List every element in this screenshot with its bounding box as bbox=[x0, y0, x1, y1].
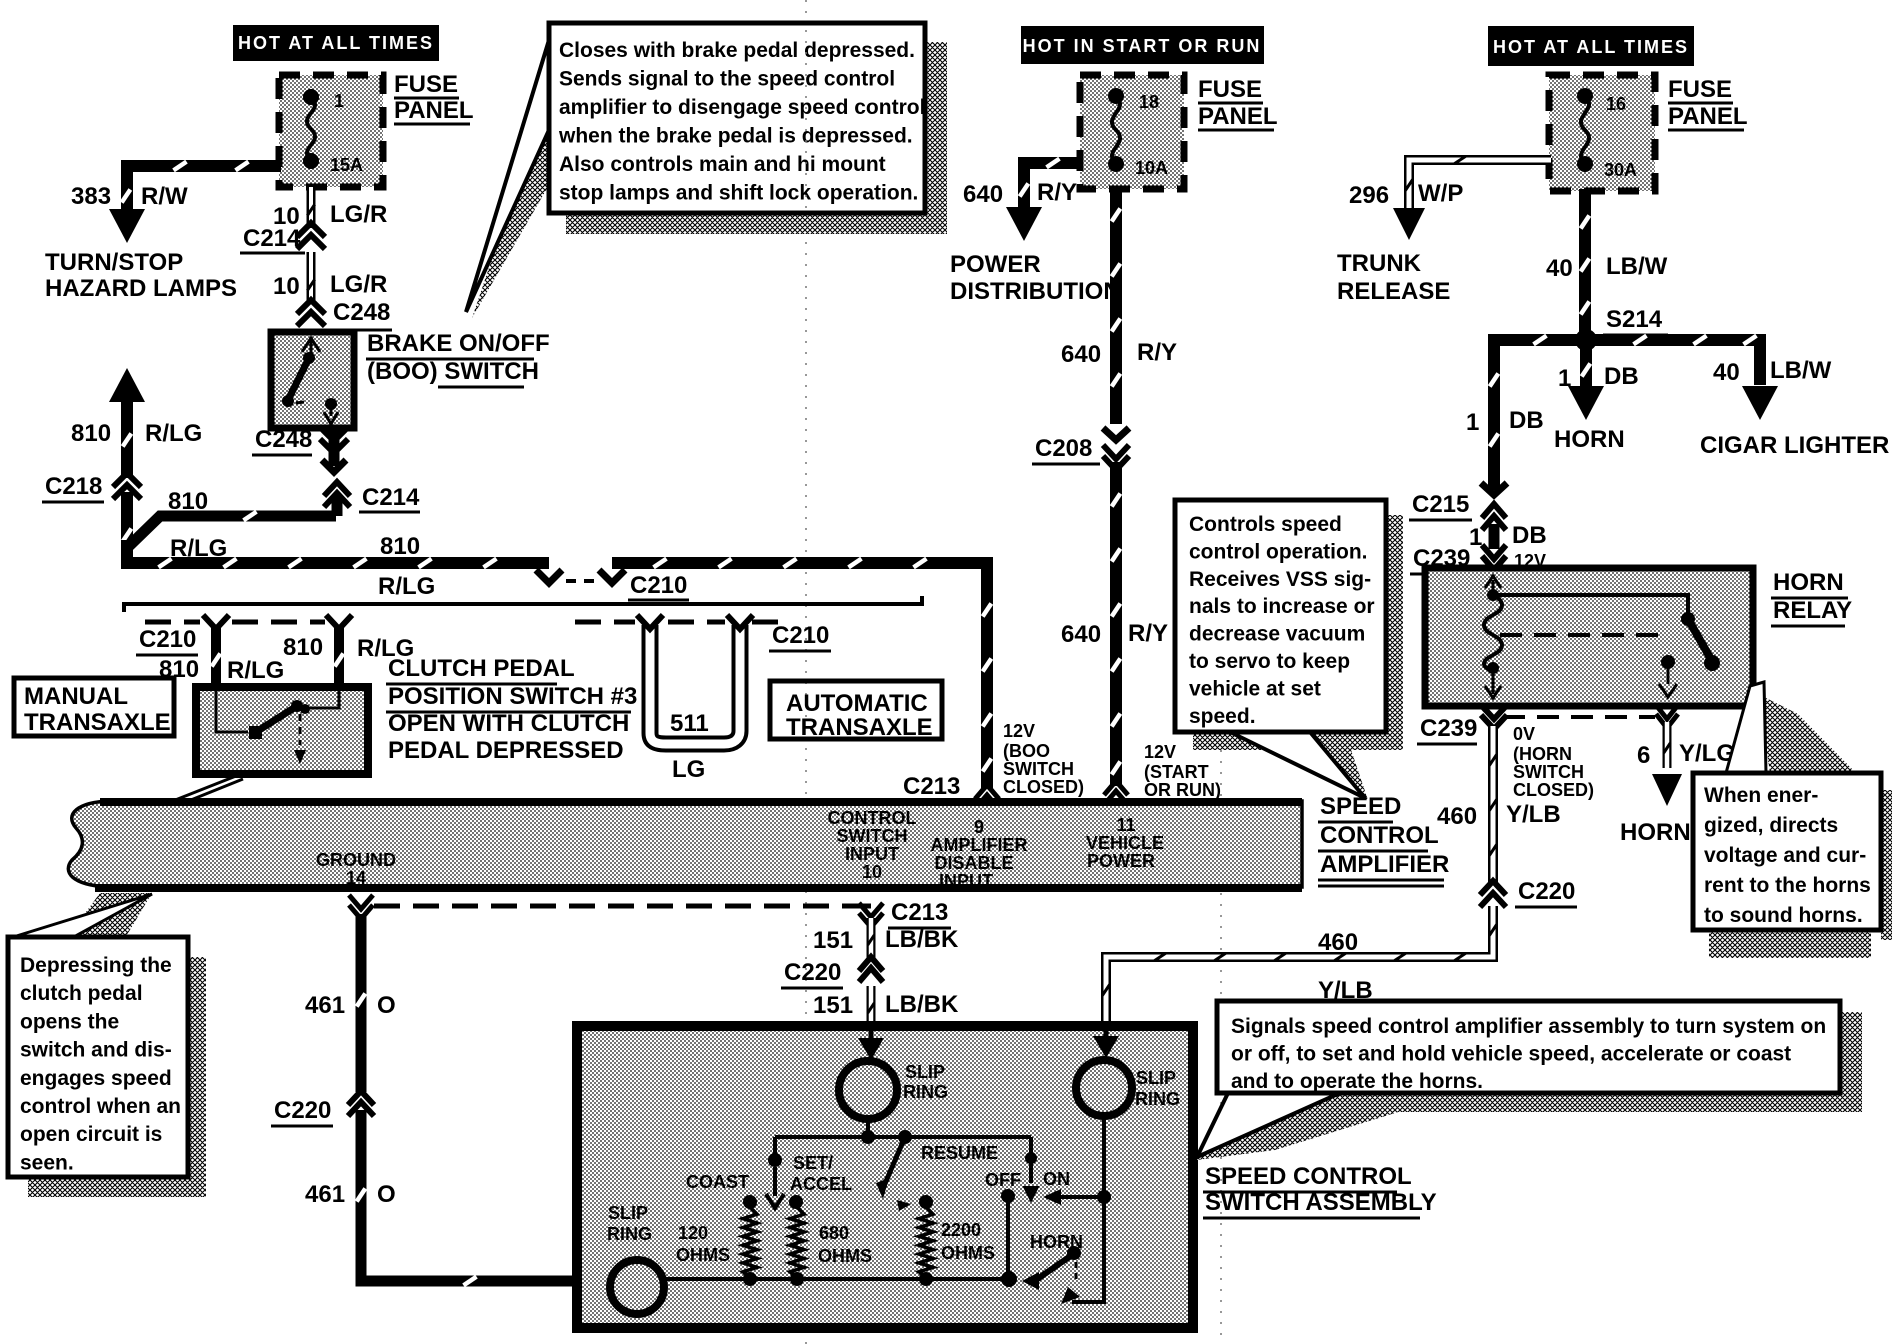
speed control switch assembly box bbox=[577, 1026, 1193, 1328]
svg-text:C248: C248 bbox=[255, 426, 312, 453]
wire 40 LB/W from fuse to S214 bbox=[1579, 189, 1591, 340]
svg-text:HORN: HORN bbox=[1554, 426, 1625, 453]
svg-text:switch and dis-: switch and dis- bbox=[20, 1039, 172, 1062]
svg-text:LB/BK: LB/BK bbox=[885, 926, 959, 953]
svg-text:C239: C239 bbox=[1420, 715, 1477, 742]
off wiper from bus bbox=[1029, 1137, 1033, 1183]
svg-text:C220: C220 bbox=[274, 1097, 331, 1124]
resume wiper bbox=[884, 1137, 905, 1186]
svg-text:Sends signal to the speed cont: Sends signal to the speed control bbox=[559, 68, 895, 91]
svg-text:10A: 10A bbox=[1135, 158, 1168, 178]
svg-text:461: 461 bbox=[305, 992, 345, 1019]
svg-text:RING: RING bbox=[607, 1224, 652, 1244]
wire C215 to C239 bbox=[1489, 524, 1500, 549]
svg-text:C214: C214 bbox=[362, 484, 420, 511]
svg-text:O: O bbox=[377, 992, 396, 1019]
slip ring 2 drop wire bbox=[1102, 1116, 1106, 1302]
svg-text:9: 9 bbox=[974, 817, 984, 837]
set/accel contact bbox=[789, 1195, 803, 1209]
svg-text:control operation.: control operation. bbox=[1189, 540, 1368, 563]
svg-text:R/W: R/W bbox=[141, 183, 188, 210]
svg-text:640: 640 bbox=[963, 181, 1003, 208]
svg-text:HOT IN START OR RUN: HOT IN START OR RUN bbox=[1023, 36, 1262, 56]
svg-text:810: 810 bbox=[71, 420, 111, 447]
svg-text:VEHICLE: VEHICLE bbox=[1086, 833, 1164, 853]
svg-text:C220: C220 bbox=[1518, 878, 1575, 905]
svg-text:383: 383 bbox=[71, 183, 111, 210]
svg-text:SWITCH ASSEMBLY: SWITCH ASSEMBLY bbox=[1205, 1189, 1437, 1216]
svg-text:AUTOMATIC: AUTOMATIC bbox=[786, 690, 928, 717]
connector below band (ground pin) bbox=[349, 895, 373, 909]
relay coil bottom arrow bbox=[1492, 668, 1495, 694]
svg-text:AMPLIFIER: AMPLIFIER bbox=[931, 835, 1028, 855]
connector C220 (relay wire) bbox=[1480, 881, 1506, 895]
callout pointer (controls speed) bbox=[1230, 732, 1365, 798]
svg-text:control when an: control when an bbox=[20, 1095, 181, 1118]
svg-text:INPUT: INPUT bbox=[845, 844, 899, 864]
callout pointer wedge shadow bbox=[472, 90, 549, 318]
svg-text:810: 810 bbox=[283, 634, 323, 661]
svg-text:CONTROL: CONTROL bbox=[1320, 822, 1439, 849]
svg-text:12V: 12V bbox=[1003, 721, 1035, 741]
svg-text:151: 151 bbox=[813, 992, 853, 1019]
svg-text:RELAY: RELAY bbox=[1773, 597, 1852, 624]
svg-text:nals to increase or: nals to increase or bbox=[1189, 595, 1375, 618]
relay 12V entry arrow bbox=[1492, 580, 1495, 594]
wire 460 Y/LB from relay down (hollow) bbox=[1488, 726, 1498, 884]
manual transaxle box bbox=[14, 678, 174, 736]
svg-text:R/Y: R/Y bbox=[1128, 620, 1168, 647]
coast contact bbox=[743, 1195, 757, 1209]
clutch switch internals bbox=[216, 690, 248, 732]
svg-text:810: 810 bbox=[380, 533, 420, 560]
wire 640 R/Y to power distribution bbox=[1024, 157, 1082, 169]
svg-text:C210: C210 bbox=[139, 626, 196, 653]
svg-text:ACCEL: ACCEL bbox=[790, 1174, 852, 1194]
connector C239 top bbox=[1482, 545, 1506, 559]
svg-text:FUSE: FUSE bbox=[394, 71, 458, 98]
svg-text:R/LG: R/LG bbox=[145, 420, 202, 447]
wire 10 LG/R upper (hollow) bbox=[307, 187, 316, 228]
svg-text:C210: C210 bbox=[630, 572, 687, 599]
svg-text:C213: C213 bbox=[903, 773, 960, 800]
callout pointer (closes with brake) bbox=[466, 40, 549, 312]
wire 461 O lower bbox=[361, 1110, 577, 1281]
svg-text:TRANSAXLE: TRANSAXLE bbox=[786, 714, 933, 741]
svg-text:amplifier to disengage speed c: amplifier to disengage speed control bbox=[559, 96, 925, 119]
svg-text:PANEL: PANEL bbox=[1668, 103, 1748, 130]
callout box: signals speed control amplifier bbox=[1217, 1001, 1840, 1093]
svg-text:LG/R: LG/R bbox=[330, 271, 387, 298]
svg-text:DB: DB bbox=[1509, 407, 1544, 434]
svg-text:rent to the horns: rent to the horns bbox=[1704, 874, 1871, 897]
svg-text:vehicle at set: vehicle at set bbox=[1189, 677, 1321, 700]
svg-text:C213: C213 bbox=[891, 899, 948, 926]
callout box: when energized directs voltage bbox=[1693, 773, 1881, 930]
clutch pedal position switch box bbox=[196, 687, 368, 774]
svg-text:Also controls main and hi moun: Also controls main and hi mount bbox=[559, 153, 886, 176]
C210 dashed connector line (left) bbox=[145, 620, 200, 625]
svg-text:40: 40 bbox=[1713, 359, 1740, 386]
svg-text:SET/: SET/ bbox=[793, 1153, 833, 1173]
switch assembly entry arrow (151) bbox=[869, 1030, 874, 1042]
svg-text:OPEN WITH CLUTCH: OPEN WITH CLUTCH bbox=[388, 710, 629, 737]
wire 460 Y/LB elbow (hollow) bbox=[1106, 906, 1493, 1026]
svg-text:COAST: COAST bbox=[686, 1172, 749, 1192]
svg-text:LB/BK: LB/BK bbox=[885, 991, 959, 1018]
connector into band (vehicle power) bbox=[1104, 781, 1128, 795]
connector C220 (461) bbox=[348, 1091, 374, 1105]
svg-text:CLOSED): CLOSED) bbox=[1003, 777, 1084, 797]
fuse F2 10A bbox=[1112, 96, 1120, 164]
svg-text:120: 120 bbox=[678, 1223, 708, 1243]
connector C214 top bbox=[297, 223, 325, 237]
connector C248 bottom bbox=[320, 427, 348, 441]
callout shadow (when energized) bbox=[1881, 790, 1892, 940]
svg-text:C220: C220 bbox=[784, 959, 841, 986]
svg-text:to servo to keep: to servo to keep bbox=[1189, 650, 1350, 673]
svg-text:R/LG: R/LG bbox=[378, 573, 435, 600]
svg-text:W/P: W/P bbox=[1418, 180, 1463, 207]
svg-text:C208: C208 bbox=[1035, 435, 1092, 462]
svg-text:SPEED CONTROL: SPEED CONTROL bbox=[1205, 1163, 1412, 1190]
on wiper arm bbox=[1097, 1190, 1111, 1204]
brake on/off switch box bbox=[271, 332, 354, 428]
svg-text:SWITCH: SWITCH bbox=[1513, 762, 1584, 782]
svg-text:LB/W: LB/W bbox=[1770, 357, 1832, 384]
wire S214 right branch to cigar lighter bbox=[1586, 340, 1760, 385]
svg-text:Signals speed control amplifie: Signals speed control amplifier assembly… bbox=[1231, 1015, 1826, 1038]
svg-text:AMPLIFIER: AMPLIFIER bbox=[1320, 851, 1449, 878]
svg-text:speed.: speed. bbox=[1189, 705, 1256, 728]
slip ring 3 (bottom left) bbox=[610, 1260, 664, 1314]
svg-text:decrease vacuum: decrease vacuum bbox=[1189, 623, 1365, 646]
connector C220 (151 wire) bbox=[859, 957, 883, 971]
svg-text:151: 151 bbox=[813, 927, 853, 954]
connector C210 on loop bbox=[637, 615, 663, 629]
svg-text:RING: RING bbox=[1135, 1089, 1180, 1109]
connector C215 bbox=[1482, 504, 1506, 518]
switch assembly entry arrow (460) bbox=[1104, 1030, 1109, 1040]
fuse F1 15A bbox=[307, 97, 315, 161]
wire 810 R/LG long run (left part) bbox=[127, 540, 549, 563]
fuse panel 1 box bbox=[279, 75, 383, 187]
wire 296 W/P (hollow) bbox=[1409, 160, 1551, 208]
svg-text:TURN/STOP: TURN/STOP bbox=[45, 249, 183, 276]
C210 dashed line (loop) bbox=[575, 620, 635, 625]
relay wire coil-top to contact bbox=[1493, 595, 1688, 614]
svg-text:C218: C218 bbox=[45, 473, 102, 500]
diagonal pointer clutch box to ground band bbox=[155, 776, 236, 808]
slip ring 1 (center top) bbox=[839, 1061, 897, 1119]
svg-text:OHMS: OHMS bbox=[941, 1243, 995, 1263]
svg-text:when the brake pedal is depres: when the brake pedal is depressed. bbox=[558, 125, 913, 148]
fold line artifact bbox=[805, 0, 807, 1344]
connector C213 (amplifier disable input) bbox=[975, 785, 999, 799]
svg-text:open circuit is: open circuit is bbox=[20, 1123, 162, 1146]
connector C210 on long wire (break) bbox=[536, 570, 562, 583]
svg-text:SWITCH: SWITCH bbox=[1003, 759, 1074, 779]
svg-text:HORN: HORN bbox=[1773, 569, 1844, 596]
svg-text:OR RUN): OR RUN) bbox=[1144, 780, 1221, 800]
svg-text:MANUAL: MANUAL bbox=[24, 683, 128, 710]
svg-text:C210: C210 bbox=[772, 622, 829, 649]
resistor 680 ohms bbox=[790, 1207, 804, 1279]
wire 461 O upper bbox=[356, 914, 367, 1092]
connector C208 bbox=[1103, 428, 1129, 440]
wire 10 LG/R lower (hollow) bbox=[307, 252, 316, 305]
wire 640 R/Y lower bbox=[1110, 462, 1122, 786]
callout pointer (when energized) bbox=[1726, 682, 1766, 773]
wire S214 left branch to C215 bbox=[1494, 340, 1586, 490]
svg-text:DISABLE: DISABLE bbox=[934, 853, 1013, 873]
dashed line ground to C213 bbox=[374, 904, 858, 909]
svg-text:DISTRIBUTION: DISTRIBUTION bbox=[950, 278, 1121, 305]
slip ring 1 stub bbox=[866, 1119, 870, 1137]
svg-text:DB: DB bbox=[1604, 363, 1639, 390]
label HOT AT ALL TIMES (right) bbox=[1488, 26, 1694, 66]
svg-text:Controls speed: Controls speed bbox=[1189, 513, 1342, 536]
svg-text:(BOO) SWITCH: (BOO) SWITCH bbox=[367, 358, 539, 385]
horn wiper arm bbox=[1001, 1271, 1017, 1287]
svg-text:RING: RING bbox=[903, 1082, 948, 1102]
wire 151 LB/BK upper (hollow) bbox=[867, 918, 876, 958]
bottom bus line bbox=[661, 1277, 1009, 1281]
top bus line bbox=[775, 1135, 1031, 1139]
wire C214 down to junction bbox=[332, 496, 343, 516]
svg-text:TRUNK: TRUNK bbox=[1337, 250, 1422, 277]
svg-text:10: 10 bbox=[862, 862, 882, 882]
svg-text:511: 511 bbox=[670, 710, 709, 737]
svg-text:S214: S214 bbox=[1606, 306, 1663, 333]
svg-text:40: 40 bbox=[1546, 255, 1573, 282]
svg-text:CLUTCH PEDAL: CLUTCH PEDAL bbox=[388, 655, 575, 682]
svg-text:seen.: seen. bbox=[20, 1151, 74, 1174]
wire S214 down branch to HORN bbox=[1580, 340, 1592, 388]
svg-text:LB/W: LB/W bbox=[1606, 253, 1668, 280]
fuse F3 30A bbox=[1581, 96, 1589, 164]
svg-text:POSITION SWITCH #3: POSITION SWITCH #3 bbox=[388, 683, 637, 710]
svg-text:PANEL: PANEL bbox=[1198, 103, 1278, 130]
callout shadow (controls speed) bbox=[1386, 515, 1403, 749]
wire BOO to C214 (solid) bbox=[329, 428, 340, 466]
horn momentary contact bbox=[1072, 1300, 1106, 1304]
fuse panel 3 box bbox=[1549, 75, 1655, 191]
splice S214 bbox=[1575, 329, 1597, 351]
svg-text:ON: ON bbox=[1043, 1169, 1070, 1189]
svg-text:18: 18 bbox=[1139, 92, 1159, 112]
callout pointer shadow (controls speed) bbox=[1258, 732, 1368, 800]
connector (relay output) bbox=[1656, 705, 1678, 719]
connector C239 bottom (coil) bbox=[1481, 705, 1507, 719]
svg-text:R/Y: R/Y bbox=[1037, 179, 1077, 206]
svg-text:SLIP: SLIP bbox=[608, 1203, 648, 1223]
fold line artifact over callout bbox=[805, 30, 807, 208]
svg-text:PEDAL DEPRESSED: PEDAL DEPRESSED bbox=[388, 737, 624, 764]
svg-text:PANEL: PANEL bbox=[394, 97, 474, 124]
svg-text:SLIP: SLIP bbox=[1136, 1068, 1176, 1088]
wire junction diagonal bbox=[127, 516, 336, 548]
svg-text:11: 11 bbox=[1116, 815, 1135, 835]
svg-text:CONTROL: CONTROL bbox=[828, 808, 917, 828]
svg-text:SWITCH: SWITCH bbox=[837, 826, 908, 846]
label HOT AT ALL TIMES (left) bbox=[233, 25, 439, 61]
callout shadow (signals) bbox=[1840, 1012, 1862, 1112]
callout shadow (closes with brake) bbox=[925, 42, 947, 234]
svg-text:RESUME: RESUME bbox=[921, 1143, 998, 1163]
svg-text:gized, directs: gized, directs bbox=[1704, 814, 1838, 837]
svg-text:HOT AT ALL TIMES: HOT AT ALL TIMES bbox=[238, 33, 434, 53]
wire C218 down to corner bbox=[121, 492, 133, 569]
svg-text:1: 1 bbox=[334, 91, 344, 111]
svg-text:OFF: OFF bbox=[985, 1170, 1021, 1190]
svg-text:460: 460 bbox=[1437, 803, 1477, 830]
svg-text:INPUT: INPUT bbox=[939, 871, 993, 891]
svg-text:GROUND: GROUND bbox=[316, 850, 396, 870]
svg-text:10: 10 bbox=[273, 203, 300, 230]
svg-text:0V: 0V bbox=[1513, 724, 1535, 744]
relay dashed jumper below box bbox=[1503, 715, 1655, 719]
svg-text:Closes with brake pedal depres: Closes with brake pedal depressed. bbox=[559, 39, 915, 62]
svg-text:LG/R: LG/R bbox=[330, 201, 387, 228]
svg-text:14: 14 bbox=[346, 868, 366, 888]
callout pointer shadow (when energized) bbox=[1758, 694, 1856, 773]
svg-text:HORN: HORN bbox=[1620, 819, 1691, 846]
svg-text:Y/LB: Y/LB bbox=[1506, 801, 1561, 828]
wire 810 R/LG up arrow (to turn/stop lamps) bbox=[109, 368, 145, 402]
svg-text:TRANSAXLE: TRANSAXLE bbox=[24, 709, 171, 736]
callout box: closes with brake pedal bbox=[549, 23, 925, 213]
callout box: depressing the clutch pedal bbox=[8, 937, 188, 1177]
svg-text:POWER: POWER bbox=[950, 251, 1041, 278]
svg-text:OHMS: OHMS bbox=[676, 1245, 730, 1265]
svg-text:15A: 15A bbox=[330, 155, 363, 175]
svg-text:(HORN: (HORN bbox=[1513, 744, 1572, 764]
svg-text:(START: (START bbox=[1144, 762, 1209, 782]
svg-text:CIGAR LIGHTER: CIGAR LIGHTER bbox=[1700, 432, 1889, 459]
svg-text:voltage and cur-: voltage and cur- bbox=[1704, 844, 1866, 867]
svg-text:Receives VSS sig-: Receives VSS sig- bbox=[1189, 568, 1371, 591]
slip ring 2 (right top) bbox=[1076, 1060, 1132, 1116]
svg-text:296: 296 bbox=[1349, 182, 1389, 209]
svg-text:and to operate the horns.: and to operate the horns. bbox=[1231, 1070, 1483, 1093]
svg-text:LG: LG bbox=[672, 756, 705, 783]
svg-text:SPEED: SPEED bbox=[1320, 793, 1401, 820]
svg-text:SLIP: SLIP bbox=[905, 1062, 945, 1082]
callout pointer shadow (signals) bbox=[1197, 1093, 1460, 1160]
svg-text:461: 461 bbox=[305, 1181, 345, 1208]
svg-text:HAZARD LAMPS: HAZARD LAMPS bbox=[45, 275, 237, 302]
svg-text:C215: C215 bbox=[1412, 491, 1469, 518]
svg-text:30A: 30A bbox=[1604, 160, 1637, 180]
relay dashed actuation line bbox=[1500, 633, 1660, 637]
relay output arrow bbox=[1667, 662, 1670, 684]
callout pointer (depressing) bbox=[10, 894, 152, 938]
fuse panel 2 box bbox=[1080, 75, 1184, 189]
off contact and drop bbox=[1001, 1189, 1015, 1203]
wire 6 Y/LG to horn (hollow) bbox=[1663, 722, 1672, 768]
svg-text:RELEASE: RELEASE bbox=[1337, 278, 1450, 305]
clutch pedal connector posts C210 bbox=[211, 625, 221, 688]
svg-text:stop lamps and shift lock oper: stop lamps and shift lock operation. bbox=[559, 182, 918, 205]
svg-text:810: 810 bbox=[168, 488, 208, 515]
label HOT IN START OR RUN bbox=[1021, 26, 1264, 64]
wire 151 LB/BK lower (hollow) bbox=[867, 986, 876, 1030]
arrow into slip ring 3 bbox=[586, 1267, 612, 1295]
svg-text:1: 1 bbox=[1466, 409, 1479, 436]
relay output contact bbox=[1661, 655, 1675, 669]
speed control amplifier band bbox=[68, 801, 1302, 887]
relay fixed contact bbox=[1681, 612, 1695, 626]
set/accel wiper bbox=[773, 1137, 777, 1160]
callout box: controls speed control operation bbox=[1175, 500, 1386, 732]
svg-text:6: 6 bbox=[1637, 742, 1650, 769]
svg-text:(BOO: (BOO bbox=[1003, 741, 1050, 761]
svg-text:C248: C248 bbox=[333, 299, 390, 326]
BOO switch internals bbox=[302, 338, 320, 352]
connector C213 (control switch input wire) bbox=[858, 904, 871, 909]
callout shadow (depressing) bbox=[188, 957, 206, 1195]
svg-text:clutch pedal: clutch pedal bbox=[20, 982, 143, 1005]
resume contact bbox=[919, 1195, 933, 1209]
svg-text:R/LG: R/LG bbox=[227, 657, 284, 684]
svg-text:When ener-: When ener- bbox=[1704, 784, 1818, 807]
svg-text:R/Y: R/Y bbox=[1137, 339, 1177, 366]
wire 383 R/W bbox=[127, 160, 281, 172]
svg-text:O: O bbox=[377, 1181, 396, 1208]
svg-text:2200: 2200 bbox=[941, 1220, 981, 1240]
callout pointer shadow (depressing) bbox=[58, 893, 152, 950]
svg-text:640: 640 bbox=[1061, 341, 1101, 368]
svg-text:POWER: POWER bbox=[1087, 851, 1155, 871]
connector C214 bottom bbox=[324, 482, 350, 496]
svg-text:BRAKE ON/OFF: BRAKE ON/OFF bbox=[367, 330, 550, 357]
wire 640 R/Y main down bbox=[1110, 189, 1122, 424]
relay coil bbox=[1487, 589, 1499, 601]
svg-text:FUSE: FUSE bbox=[1198, 76, 1262, 103]
svg-text:engages speed: engages speed bbox=[20, 1067, 172, 1090]
relay armature bbox=[1688, 619, 1712, 661]
automatic transaxle box bbox=[770, 681, 942, 739]
svg-text:Y/LG: Y/LG bbox=[1679, 740, 1735, 767]
svg-text:680: 680 bbox=[819, 1223, 849, 1243]
callout pointer (signals) bbox=[1197, 1093, 1340, 1157]
wire 810 R/LG long run (right part) bbox=[612, 563, 987, 788]
svg-text:640: 640 bbox=[1061, 621, 1101, 648]
horn relay box bbox=[1425, 568, 1753, 706]
svg-text:FUSE: FUSE bbox=[1668, 76, 1732, 103]
svg-text:10: 10 bbox=[273, 273, 300, 300]
svg-text:to sound horns.: to sound horns. bbox=[1704, 904, 1863, 927]
svg-text:opens the: opens the bbox=[20, 1010, 119, 1033]
connector C248 top bbox=[297, 300, 325, 314]
svg-text:CLOSED): CLOSED) bbox=[1513, 780, 1594, 800]
thin return wire bbox=[124, 596, 922, 612]
svg-text:DB: DB bbox=[1512, 522, 1547, 549]
svg-text:Depressing the: Depressing the bbox=[20, 954, 172, 977]
svg-text:1: 1 bbox=[1558, 365, 1571, 392]
svg-text:16: 16 bbox=[1606, 94, 1626, 114]
automatic transaxle loop 511 bbox=[650, 625, 740, 744]
svg-text:HOT AT ALL TIMES: HOT AT ALL TIMES bbox=[1493, 37, 1689, 57]
connector C218 bbox=[113, 473, 141, 487]
svg-text:460: 460 bbox=[1318, 929, 1358, 956]
svg-text:12V: 12V bbox=[1144, 742, 1176, 762]
svg-text:or off, to set and hold vehicl: or off, to set and hold vehicle speed, a… bbox=[1231, 1043, 1791, 1066]
resistor 120 ohms bbox=[743, 1207, 757, 1279]
svg-text:OHMS: OHMS bbox=[818, 1246, 872, 1266]
resistor 2200 ohms bbox=[919, 1207, 933, 1279]
